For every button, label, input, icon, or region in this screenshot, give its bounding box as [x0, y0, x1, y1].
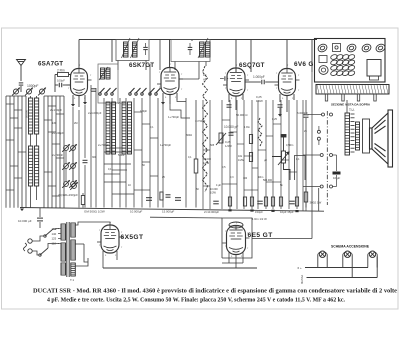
svg-text:µF: µF [264, 159, 267, 162]
chassis legs [325, 94, 327, 101]
T1 secondary winding a [71, 223, 76, 237]
switch lever mains [45, 229, 53, 236]
resistor mid right 1 [249, 135, 252, 144]
resistor screen mid [194, 159, 198, 173]
ground main bus arrow [20, 209, 24, 212]
svg-text:1/2W: 1/2W [210, 192, 216, 195]
wire riser x160 [159, 40, 161, 71]
coil box middle windings d [128, 102, 132, 154]
output transformer secondary frame [363, 119, 370, 153]
coil antenna primary 2 [35, 98, 39, 134]
svg-text:1/4W: 1/4W [225, 144, 232, 148]
wire trimmer column links [65, 151, 67, 163]
tube 6X5GT envelope [97, 225, 123, 253]
capacitor antenna 1000pF [19, 83, 24, 85]
wire tube2 pins [162, 93, 164, 102]
wire loop right of pot [295, 156, 306, 181]
IF transformer 2 coil a [200, 42, 205, 57]
svg-text:100: 100 [243, 177, 248, 180]
IF2 tuning arrow [198, 38, 208, 58]
capacitor osc grid 100pF [59, 83, 61, 88]
zigzag resistor mid right [258, 118, 262, 146]
IF1 capacitor right [143, 47, 148, 49]
switch box outline [98, 64, 118, 103]
filament lamp 1 [319, 251, 325, 257]
wire tube2 plate to IF2 [179, 78, 199, 80]
T1 primary winding b [61, 243, 66, 261]
tube 6SQ7GT envelope [223, 68, 249, 96]
svg-text:10µF 15µF: 10µF 15µF [280, 210, 294, 214]
chassis speaker rect [367, 60, 381, 77]
capacitor tube3 cath [227, 105, 232, 107]
svg-text:2×10.000µF: 2×10.000µF [204, 210, 219, 214]
coil antenna primary winding [29, 98, 33, 134]
resistor right low 300ohm [304, 192, 307, 202]
output transformer core laminations [351, 114, 355, 152]
wire tuning verticals [5, 96, 7, 208]
trimmer padding 4 [71, 146, 76, 151]
svg-text:6SA7GT: 6SA7GT [38, 61, 63, 68]
power transformer T1 core [66, 222, 68, 277]
svg-text:0,1: 0,1 [296, 158, 300, 161]
chassis small square [333, 44, 341, 52]
resistor agc left [81, 196, 84, 205]
wire middle comb [103, 98, 105, 208]
svg-text:1 Rm 1/2 W: 1 Rm 1/2 W [252, 217, 267, 221]
svg-text:0,5: 0,5 [222, 166, 226, 169]
svg-text:25.000: 25.000 [118, 102, 126, 105]
svg-text:2+730pF: 2+730pF [52, 153, 63, 157]
wire tube5 leads [109, 222, 111, 225]
capacitor 10000uF [37, 218, 43, 221]
T1 primary winding a [61, 224, 66, 240]
svg-text:50.000 Ω: 50.000 Ω [236, 113, 247, 117]
coil box middle windings a [106, 102, 110, 154]
svg-text:50.000: 50.000 [203, 157, 211, 161]
IF2 box [171, 40, 210, 62]
wire antenna to band switch [20, 86, 22, 92]
resistor mid right 2 [249, 153, 252, 162]
svg-text:6 +: 6 + [298, 266, 303, 270]
svg-text:2+130pF: 2+130pF [50, 108, 62, 112]
filament lamp 3 [369, 251, 375, 257]
svg-text:10.000 pF: 10.000 pF [224, 125, 238, 129]
svg-text:MASSA: MASSA [300, 275, 304, 284]
wire IF2 leads [174, 62, 176, 71]
wire comb stubs middle [134, 111, 142, 113]
svg-text:4 µF: 4 µF [216, 184, 222, 187]
IF1 coil primary winding [124, 42, 129, 57]
mains plug [28, 239, 32, 243]
capacitor 1000pF coupling [262, 80, 264, 85]
svg-text:µF: µF [203, 77, 207, 81]
svg-text:0,1: 0,1 [188, 156, 192, 159]
svg-text:GM 500Ω 1/2W: GM 500Ω 1/2W [84, 210, 105, 214]
svg-text:1000pF: 1000pF [27, 84, 39, 88]
svg-text:1.000pF: 1.000pF [253, 75, 265, 79]
wire left links [6, 95, 26, 97]
chassis top-view panel [315, 39, 386, 83]
capacitor 450pF under tube1 [83, 160, 88, 162]
wire tube2 stair connectors [177, 100, 186, 102]
svg-text:6.000pF: 6.000pF [297, 111, 308, 115]
trimmer padding 5 [64, 164, 69, 169]
wire tube6 frame [222, 218, 252, 258]
capacitor 10uF right [333, 172, 341, 175]
svg-text:130: 130 [52, 122, 57, 125]
svg-text:2+130pF: 2+130pF [52, 131, 64, 135]
svg-text:150pF: 150pF [255, 210, 263, 214]
wire terminal links [308, 114, 322, 116]
svg-text:1/2W: 1/2W [203, 161, 210, 165]
wire resistor drop [82, 193, 84, 196]
capacitor pair mid2 [175, 198, 181, 201]
svg-text:10.000µF: 10.000µF [130, 210, 143, 214]
speaker cone [370, 110, 393, 167]
capacitor det [229, 133, 234, 135]
svg-text:15.000µF: 15.000µF [162, 210, 175, 214]
coil box middle windings b [112, 102, 116, 154]
svg-text:6SQ7GT: 6SQ7GT [239, 62, 265, 69]
ground tube4 via cap [278, 105, 283, 107]
svg-text:6V6 G: 6V6 G [294, 61, 314, 68]
wire right comb verticals [202, 100, 204, 209]
wire long heater bus [103, 267, 257, 269]
wire riser x192 [191, 40, 193, 42]
capacitor oval top [229, 222, 243, 228]
trimmer padding 3 [64, 146, 69, 151]
coil antenna secondary winding [29, 146, 33, 186]
svg-text:1Rm: 1Rm [258, 176, 263, 179]
svg-text:1×730µF: 1×730µF [195, 119, 206, 123]
wire riser x112 [111, 40, 113, 63]
wire coil taps [30, 96, 32, 98]
wire rect tube3 plate loop [236, 40, 251, 73]
switch wafer contacts [99, 88, 161, 95]
ground tube1 cathode [71, 104, 75, 107]
svg-text:2×(330+330)pF: 2×(330+330)pF [58, 193, 78, 197]
svg-text:100pF: 100pF [140, 110, 148, 113]
switch lever 2 [40, 248, 48, 255]
svg-text:0,1: 0,1 [108, 168, 112, 171]
ground tube1 g3 [83, 102, 87, 105]
trimmer padding 1 [64, 182, 69, 187]
svg-text:0,3: 0,3 [230, 176, 234, 179]
wire tube6 pins [228, 252, 230, 263]
wire heater drops [351, 268, 353, 278]
svg-text:300Ω: 300Ω [186, 134, 192, 137]
trimmer padding 2 [71, 182, 76, 187]
svg-text:SEZIONE VISTA DA SOPRA: SEZIONE VISTA DA SOPRA [331, 103, 371, 107]
svg-text:100pF: 100pF [57, 79, 65, 83]
wire rect tube4 loop [287, 40, 312, 73]
wire tube3 pins [228, 94, 230, 102]
T1 secondary winding c [71, 263, 76, 276]
tube 6SA7GT envelope [67, 69, 92, 96]
IF transformer 1 box [116, 40, 149, 61]
wire chassis dash-dot boundary [326, 111, 328, 205]
wire comb stubs left [10, 117, 18, 119]
chassis left small square [319, 56, 327, 63]
coil antenna secondary 2 [35, 146, 39, 186]
svg-text:2+1.000pF: 2+1.000pF [88, 111, 102, 115]
wire heater bus A [305, 267, 368, 269]
svg-text:1+730pF: 1+730pF [168, 115, 179, 119]
svg-text:4 pF. Medie e tre corte. Uscit: 4 pF. Medie e tre corte. Uscita 2,5 W. C… [47, 298, 345, 304]
svg-text:1+730pF: 1+730pF [160, 143, 171, 147]
svg-text:10.000 µF: 10.000 µF [18, 219, 32, 223]
wire top B+ bus [79, 39, 317, 41]
svg-text:DUCATI SSR - Mod. RR 4360 - Il: DUCATI SSR - Mod. RR 4360 - Il mod. 4360… [33, 289, 397, 295]
wire right return to magic eye [252, 238, 312, 240]
wire tube6 to bus [235, 263, 237, 268]
wire tube1 pin drops long [72, 107, 74, 182]
tube 6E5GT envelope [223, 226, 250, 255]
svg-text:6SK7GT: 6SK7GT [129, 62, 154, 69]
svg-text:500.000: 500.000 [263, 179, 273, 182]
capacitor tube3 grid [225, 76, 227, 81]
chassis gang capacitor plates [330, 54, 355, 76]
wire main ground bus [20, 208, 324, 212]
wire comb stubs right [222, 119, 230, 121]
svg-text:140: 140 [52, 232, 57, 236]
wire jumper column [318, 126, 320, 130]
IF2 capacitor [188, 47, 193, 49]
variable capacitor gang 2 [27, 89, 32, 94]
capacitor row bottom [213, 201, 219, 204]
T1 primary winding c [61, 263, 66, 275]
terminal circles [322, 113, 325, 116]
resistor 2 Rm oscillator grid [58, 73, 69, 77]
coil box middle windings c [122, 102, 126, 154]
svg-text:0,1: 0,1 [150, 126, 154, 129]
svg-text:SCHEMA ACCENSIONE: SCHEMA ACCENSIONE [331, 245, 370, 249]
svg-text:300Ω 1W: 300Ω 1W [310, 201, 322, 205]
capacitor under tube2 [166, 195, 171, 197]
svg-text:1 Rm: 1 Rm [244, 126, 250, 129]
filament lamp 2 [344, 251, 350, 257]
wire osc grid [55, 74, 58, 76]
trimmer padding 6 [71, 164, 76, 169]
svg-text:2+730pF: 2+730pF [98, 143, 109, 147]
svg-text:5.000: 5.000 [118, 154, 125, 157]
trimmer under tube1 [72, 184, 77, 189]
wire filament brackets [317, 254, 319, 267]
wire speaker feed verticals [302, 100, 304, 211]
variable capacitor gang 3 [40, 89, 45, 94]
antenna [17, 60, 26, 82]
T1 secondary winding b [71, 240, 76, 260]
svg-text:1/2W: 1/2W [238, 159, 244, 162]
wire riser x150 short [149, 64, 151, 98]
svg-text:T.1: T.1 [70, 278, 74, 282]
svg-text:505: 505 [210, 144, 215, 147]
wire IF1 down leads [117, 61, 119, 71]
resistor row bottom r1 [228, 197, 231, 206]
svg-text:T.U.: T.U. [349, 108, 355, 112]
svg-text:1/2W: 1/2W [256, 99, 263, 103]
wire T1 tap leads [58, 228, 61, 230]
capacitor pair mid1 [146, 198, 152, 201]
svg-text:2 Rm: 2 Rm [57, 69, 65, 73]
wire tube4 pins [279, 94, 281, 102]
wire tube1 grid cap riser [78, 40, 80, 70]
IF transformer 2 coil b [206, 42, 211, 57]
ground tube2 [161, 102, 165, 105]
chassis tube top a [317, 43, 386, 53]
svg-text:300: 300 [92, 156, 97, 159]
wire heater bus B [307, 277, 378, 279]
svg-text:125: 125 [52, 237, 57, 241]
tube 6V6G envelope [275, 69, 300, 96]
output transformer secondary winding [356, 122, 360, 150]
svg-text:6X5GT: 6X5GT [121, 234, 144, 241]
tube 6SK7GT envelope [157, 68, 183, 95]
wire tube1 pins [72, 95, 74, 104]
wire T1 secondary leads [75, 222, 90, 225]
capacitor 6000pF tone [304, 115, 309, 117]
chassis left ellipse [319, 66, 328, 75]
wire zigzag AVC dashed [203, 66, 208, 192]
wire mains connections [32, 236, 44, 241]
svg-text:0,5Rm: 0,5Rm [286, 144, 293, 147]
svg-text:2M: 2M [74, 122, 77, 125]
oscillator coil 2 in box [106, 68, 110, 79]
oscillator coil arrow [99, 67, 108, 80]
IF1 tuning arrows [122, 38, 131, 58]
tone pot small [216, 133, 226, 145]
svg-text:0,25: 0,25 [272, 118, 277, 121]
svg-text:30.000: 30.000 [25, 110, 29, 118]
oscillator coil in box [101, 68, 105, 79]
chassis side bar [316, 85, 389, 95]
resistor under tube2 small [160, 192, 163, 200]
ground ticks on bus [228, 209, 231, 211]
capacitor right of tube1 [91, 89, 96, 91]
output transformer primary winding [345, 113, 350, 155]
IF1 coil secondary winding [133, 42, 138, 57]
wire right risers [311, 190, 313, 239]
volume potentiometer [272, 135, 290, 181]
wire lower bus 2 [150, 216, 222, 219]
wire ot leads [346, 100, 348, 113]
variable capacitor gang 1 [14, 89, 19, 94]
wire tube2 riser [169, 40, 171, 68]
